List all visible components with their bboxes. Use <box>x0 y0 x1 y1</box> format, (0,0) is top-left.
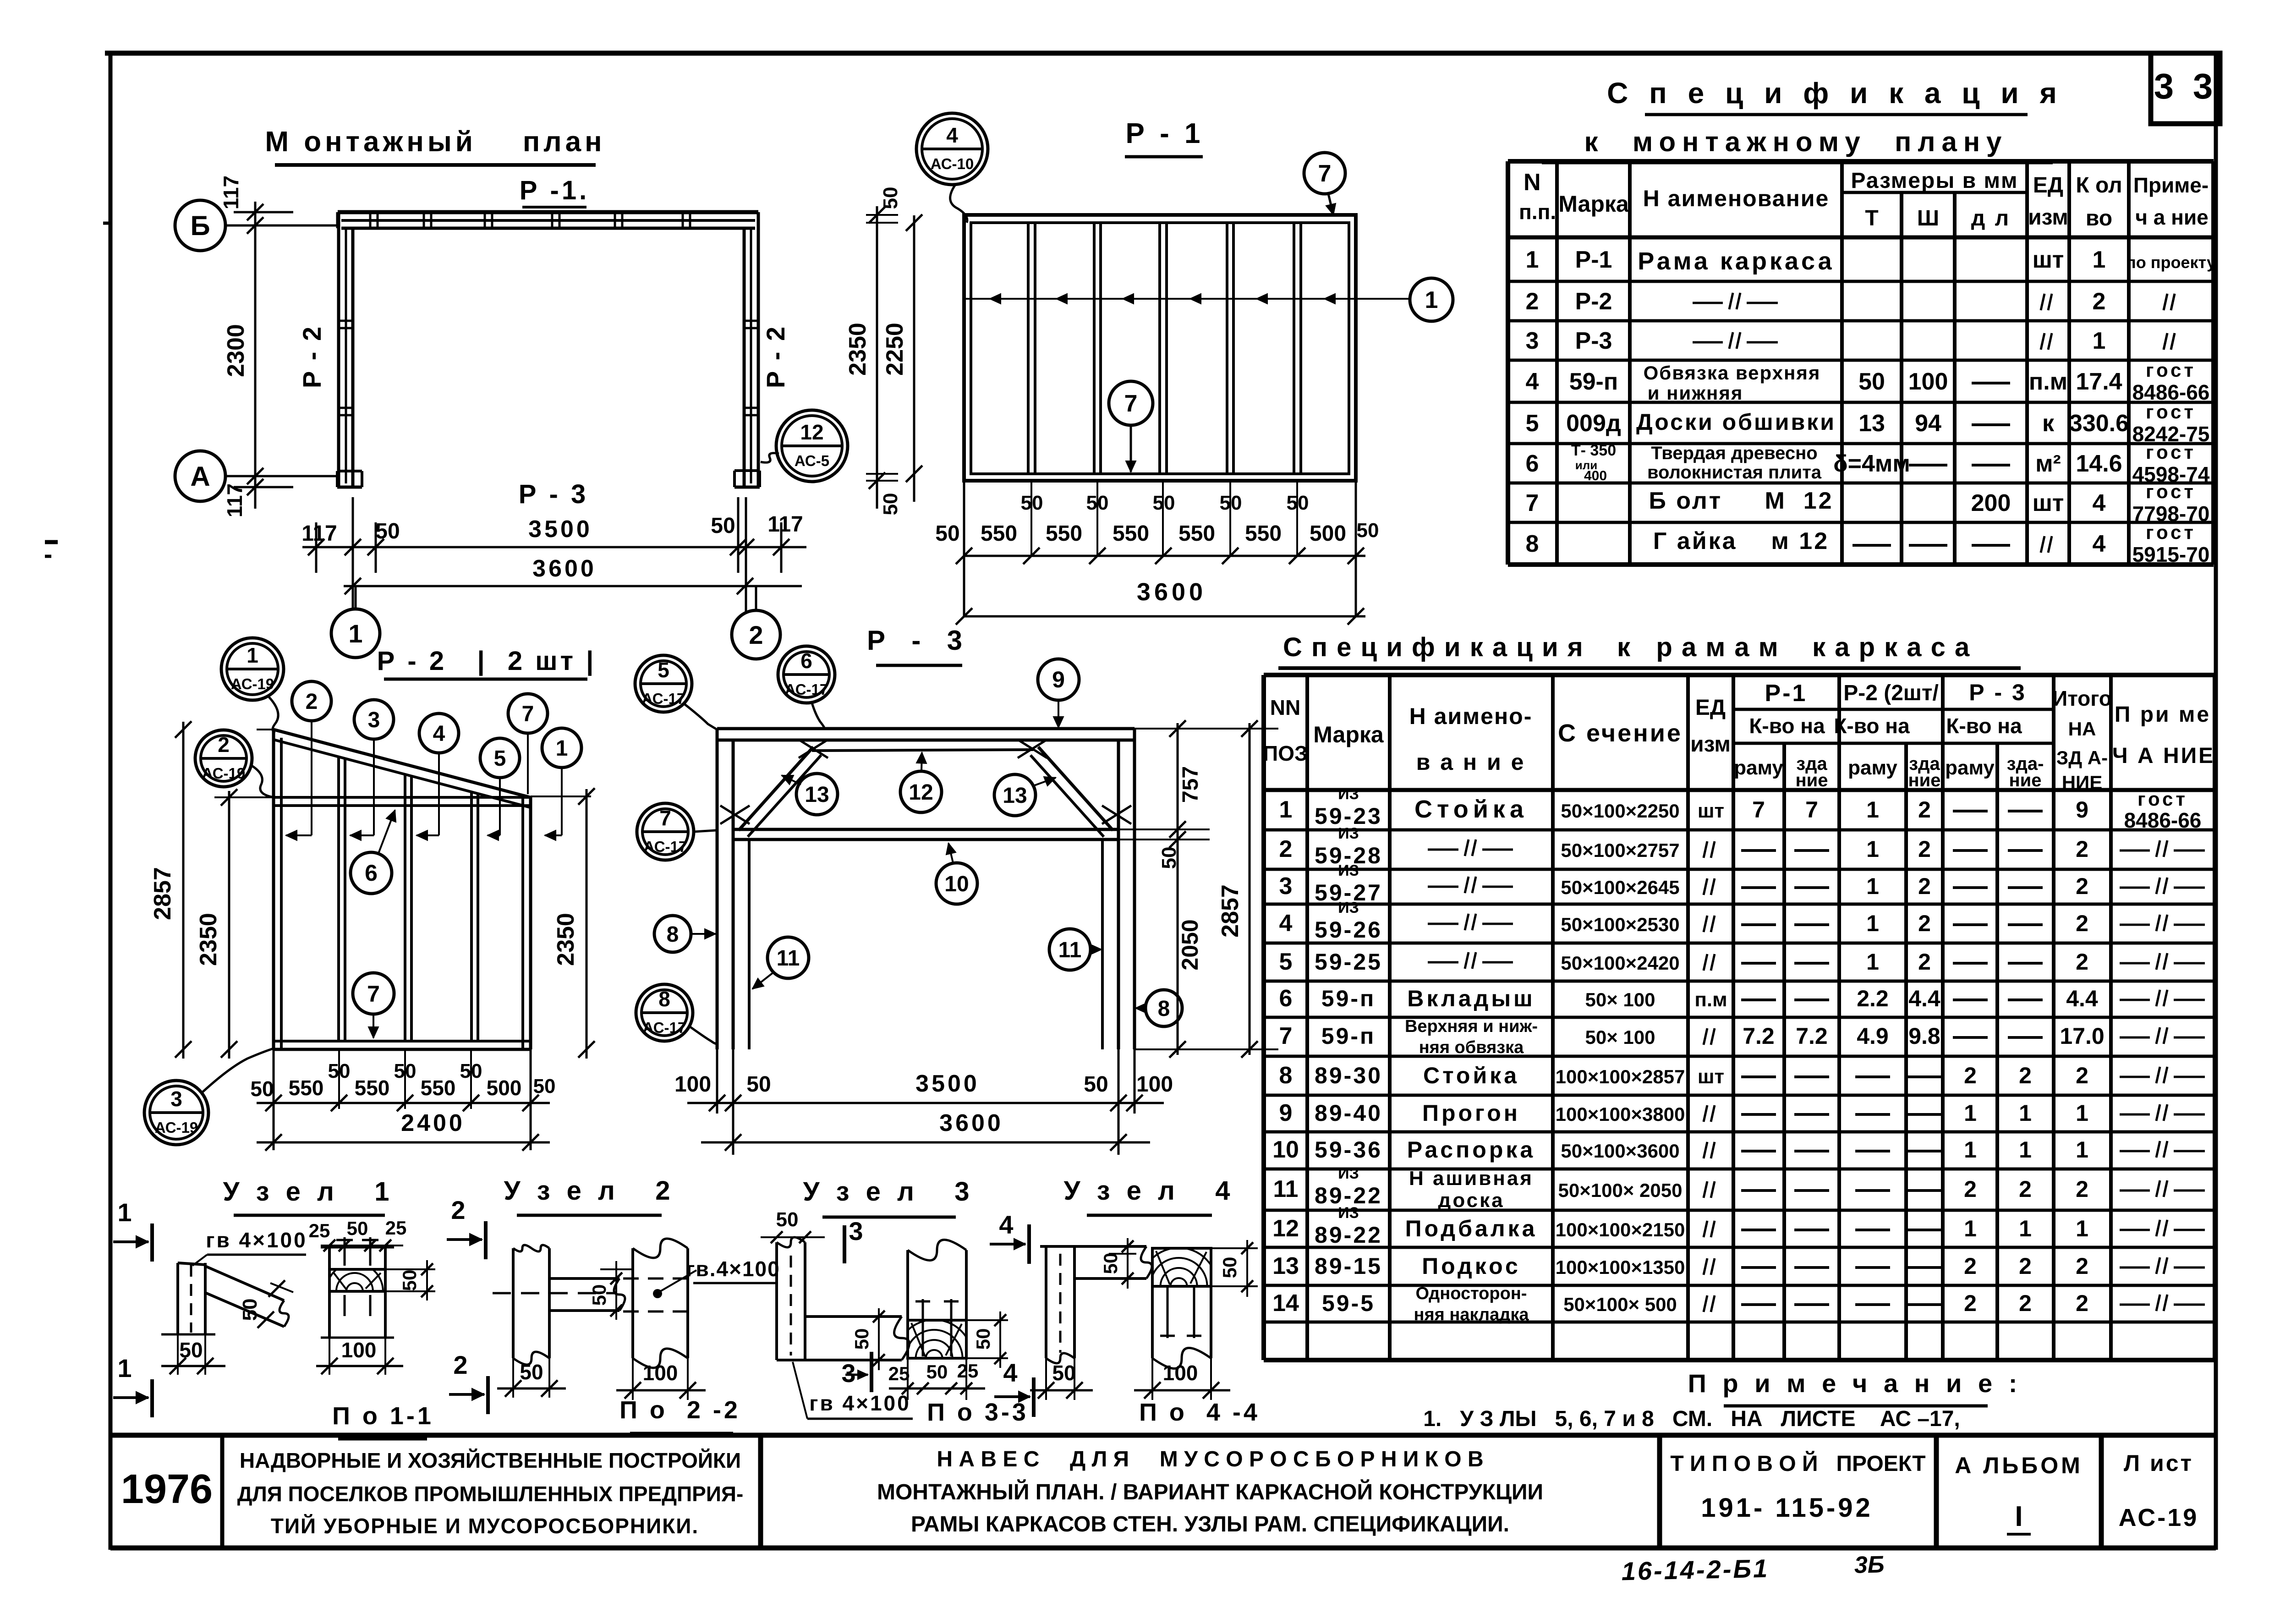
svg-text:100: 100 <box>1163 1361 1198 1385</box>
svg-text:3: 3 <box>1526 328 1539 354</box>
svg-text:Приме-: Приме- <box>2133 173 2209 197</box>
svg-text:14: 14 <box>1272 1290 1299 1317</box>
svg-text:ИЗ: ИЗ <box>1338 785 1359 803</box>
svg-text:I: I <box>2015 1501 2022 1532</box>
svg-text:50: 50 <box>399 1270 420 1291</box>
svg-text:1: 1 <box>1866 797 1879 823</box>
svg-text:50: 50 <box>935 521 959 546</box>
svg-text:25: 25 <box>385 1217 407 1239</box>
svg-text:50: 50 <box>711 514 735 538</box>
svg-text:50: 50 <box>533 1075 556 1097</box>
svg-text:2350: 2350 <box>195 913 222 966</box>
svg-text:АС-5: АС-5 <box>795 452 829 469</box>
svg-text:2: 2 <box>1918 836 1931 862</box>
svg-text:550: 550 <box>289 1076 324 1100</box>
svg-text:3600: 3600 <box>532 555 597 582</box>
svg-text:няя обвязка: няя обвязка <box>1419 1038 1524 1057</box>
svg-text:4: 4 <box>1526 368 1539 395</box>
svg-text:гост: гост <box>2146 401 2196 422</box>
svg-text:1: 1 <box>2093 247 2106 273</box>
svg-text:100: 100 <box>643 1361 678 1385</box>
svg-text:50: 50 <box>1086 492 1109 514</box>
svg-text:Прогон: Прогон <box>1422 1100 1520 1126</box>
svg-text:п.м: п.м <box>2029 368 2067 395</box>
svg-text:Р - 3: Р - 3 <box>867 625 966 656</box>
svg-text:3: 3 <box>368 708 380 732</box>
svg-text:59-25: 59-25 <box>1315 949 1382 975</box>
svg-text:50: 50 <box>250 1077 274 1101</box>
svg-text:АС-17: АС-17 <box>644 838 687 855</box>
svg-text:по проекту: по проекту <box>2126 253 2216 272</box>
svg-text:К-во на: К-во на <box>1749 714 1825 738</box>
svg-text:АС-19: АС-19 <box>2119 1504 2199 1531</box>
svg-text:изм: изм <box>1690 732 1731 757</box>
svg-text:50: 50 <box>1021 492 1043 514</box>
svg-text:7: 7 <box>1805 797 1818 823</box>
svg-text:3: 3 <box>170 1087 182 1111</box>
svg-text:100×100×1350: 100×100×1350 <box>1556 1256 1685 1278</box>
svg-text:50×100× 500: 50×100× 500 <box>1563 1294 1677 1315</box>
svg-text:1: 1 <box>1964 1137 1977 1163</box>
svg-text:100×100×2857: 100×100×2857 <box>1556 1066 1685 1087</box>
svg-text:14.6: 14.6 <box>2076 450 2122 477</box>
svg-text:50: 50 <box>1858 368 1885 395</box>
svg-text:3 3: 3 3 <box>2154 66 2217 106</box>
svg-text:1: 1 <box>2076 1100 2088 1126</box>
svg-text:400: 400 <box>1584 468 1607 483</box>
svg-text:П о 1-1: П о 1-1 <box>332 1402 434 1430</box>
svg-text:11: 11 <box>1058 938 1082 962</box>
svg-text:М онтажный план: М онтажный план <box>265 126 605 158</box>
svg-text:50× 100: 50× 100 <box>1585 989 1655 1010</box>
svg-text:89-30: 89-30 <box>1315 1063 1382 1088</box>
svg-text:4: 4 <box>2093 531 2106 557</box>
svg-text:17.4: 17.4 <box>2076 368 2122 395</box>
svg-text:12: 12 <box>1272 1215 1299 1242</box>
svg-text:ЗД А-: ЗД А- <box>2056 747 2108 768</box>
svg-text:Ш: Ш <box>1917 206 1939 230</box>
svg-text:П ри ме: П ри ме <box>2115 702 2211 727</box>
svg-text:8: 8 <box>1526 531 1539 557</box>
svg-text:Т: Т <box>1865 206 1878 230</box>
svg-text:4: 4 <box>2093 490 2106 516</box>
svg-text:13: 13 <box>1003 784 1027 808</box>
svg-text:2: 2 <box>1526 288 1539 315</box>
svg-text:2: 2 <box>2076 1290 2088 1316</box>
svg-text:100×100×2150: 100×100×2150 <box>1556 1219 1685 1240</box>
svg-text:7: 7 <box>1124 390 1138 417</box>
svg-text:К-во на: К-во на <box>1834 714 1910 738</box>
svg-text:ИЗ: ИЗ <box>1338 899 1359 916</box>
svg-text:Ч А НИЕ: Ч А НИЕ <box>2112 744 2215 768</box>
svg-text:гв.4×100: гв.4×100 <box>686 1257 780 1281</box>
svg-text:1: 1 <box>117 1198 132 1227</box>
svg-text:50: 50 <box>375 519 400 543</box>
svg-text:2: 2 <box>453 1350 467 1379</box>
svg-text:ИЗ: ИЗ <box>1338 862 1359 879</box>
svg-text:2400: 2400 <box>401 1110 465 1136</box>
svg-text:1: 1 <box>348 619 362 648</box>
svg-text:50: 50 <box>1084 1072 1108 1097</box>
svg-text:У з е л 3: У з е л 3 <box>803 1177 974 1207</box>
svg-text:2: 2 <box>218 733 230 757</box>
svg-text:Р - 2: Р - 2 <box>761 325 790 388</box>
svg-text:50×100× 2050: 50×100× 2050 <box>1558 1180 1683 1201</box>
svg-text:Т- 350: Т- 350 <box>1571 442 1616 459</box>
svg-text:191- 115-92: 191- 115-92 <box>1701 1493 1873 1523</box>
svg-text:550: 550 <box>981 521 1017 546</box>
svg-text:Марка: Марка <box>1313 722 1384 747</box>
svg-text:2: 2 <box>1964 1253 1977 1279</box>
svg-text:3: 3 <box>849 1217 863 1245</box>
svg-text:Рама каркаса: Рама каркаса <box>1638 247 1834 275</box>
svg-text:ЕД: ЕД <box>2033 173 2063 198</box>
svg-text:2857: 2857 <box>149 867 176 920</box>
svg-text:Н аименование: Н аименование <box>1643 186 1830 211</box>
svg-text:6: 6 <box>800 649 812 673</box>
svg-text:2: 2 <box>2019 1176 2032 1202</box>
svg-text:16-14-2-Б1: 16-14-2-Б1 <box>1621 1554 1770 1586</box>
svg-text:59-36: 59-36 <box>1315 1137 1382 1163</box>
svg-text:Р-1: Р-1 <box>1575 247 1612 273</box>
svg-text:50: 50 <box>972 1328 994 1350</box>
svg-text:ч а ние: ч а ние <box>2135 205 2209 229</box>
svg-text:2: 2 <box>2019 1063 2032 1088</box>
svg-text:13: 13 <box>805 783 829 807</box>
svg-text:2: 2 <box>451 1196 465 1224</box>
svg-text:2: 2 <box>1918 873 1931 899</box>
svg-text:П о 3-3: П о 3-3 <box>927 1399 1029 1426</box>
svg-text:50: 50 <box>394 1060 417 1082</box>
svg-text:в а н и е: в а н и е <box>1416 749 1526 775</box>
svg-text:НАДВОРНЫЕ И ХОЗЯЙСТВЕННЫЕ ПОСТ: НАДВОРНЫЕ И ХОЗЯЙСТВЕННЫЕ ПОСТРОЙКИ <box>240 1448 741 1472</box>
svg-text:4.9: 4.9 <box>1857 1023 1889 1049</box>
svg-text:50: 50 <box>239 1299 261 1321</box>
svg-text:ТИЙ УБОРНЫЕ И МУСОРОСБОРНИКИ.: ТИЙ УБОРНЫЕ И МУСОРОСБОРНИКИ. <box>271 1514 699 1538</box>
svg-text:Подкос: Подкос <box>1422 1253 1521 1279</box>
svg-text:500: 500 <box>487 1076 522 1100</box>
svg-text:2: 2 <box>1279 836 1293 862</box>
svg-text:Р - 2: Р - 2 <box>297 325 326 388</box>
svg-text:во: во <box>2086 206 2112 230</box>
svg-text:1: 1 <box>1866 911 1879 936</box>
svg-text:11: 11 <box>777 946 800 971</box>
svg-text:С ечение: С ечение <box>1558 719 1683 747</box>
svg-text:2: 2 <box>749 620 763 649</box>
svg-text:550: 550 <box>1245 521 1282 546</box>
svg-text:АС-10: АС-10 <box>931 155 974 172</box>
svg-text:10: 10 <box>1272 1136 1299 1163</box>
svg-text:50: 50 <box>179 1338 203 1362</box>
svg-text:5915-70: 5915-70 <box>2132 543 2210 566</box>
svg-text:5: 5 <box>1526 410 1539 437</box>
svg-text:50: 50 <box>1220 492 1242 514</box>
svg-text:гв 4×100: гв 4×100 <box>206 1228 307 1252</box>
svg-text:Р - 3: Р - 3 <box>1969 680 2027 705</box>
svg-text:НИЕ: НИЕ <box>2062 772 2103 793</box>
svg-text:гост: гост <box>2146 521 2196 543</box>
svg-text:NN: NN <box>1270 696 1300 719</box>
svg-text:2300: 2300 <box>223 324 249 377</box>
svg-text:8486-66: 8486-66 <box>2124 808 2202 832</box>
svg-text:12: 12 <box>909 780 933 805</box>
svg-text:1. У З ЛЫ 5, 6, 7 и 8 СМ: 1. У З ЛЫ 5, 6, 7 и 8 СМ. НА ЛИСТЕ АС –1… <box>1423 1407 1960 1431</box>
svg-text:7: 7 <box>1318 160 1332 187</box>
svg-text:50: 50 <box>1100 1253 1121 1274</box>
svg-text:7: 7 <box>522 702 534 726</box>
svg-text:няя накладка: няя накладка <box>1414 1305 1529 1324</box>
svg-text:5: 5 <box>658 658 669 682</box>
svg-text:2: 2 <box>2019 1253 2032 1279</box>
svg-text:АС-19: АС-19 <box>155 1119 198 1136</box>
svg-text:2: 2 <box>1918 911 1931 936</box>
svg-text:У з е л 4: У з е л 4 <box>1064 1176 1235 1206</box>
svg-text:7: 7 <box>367 981 380 1007</box>
svg-text:1: 1 <box>2076 1137 2088 1163</box>
svg-text:А: А <box>190 461 210 492</box>
svg-text:3Б: 3Б <box>1854 1551 1885 1578</box>
svg-text:АС-17: АС-17 <box>785 681 828 698</box>
svg-text:1: 1 <box>1279 796 1293 823</box>
svg-text:50: 50 <box>879 187 902 209</box>
svg-text:1: 1 <box>1866 836 1879 862</box>
svg-text:89-22: 89-22 <box>1315 1222 1382 1248</box>
svg-text:7.2: 7.2 <box>1796 1023 1828 1049</box>
svg-text:2: 2 <box>2019 1290 2032 1316</box>
svg-text:К-во на: К-во на <box>1946 714 2022 738</box>
svg-text:4: 4 <box>1279 910 1293 937</box>
svg-text:50: 50 <box>746 1072 771 1097</box>
svg-text:5: 5 <box>494 746 506 771</box>
svg-text:3500: 3500 <box>915 1070 980 1097</box>
svg-text:59-п: 59-п <box>1321 1023 1376 1049</box>
svg-text:500: 500 <box>1310 521 1346 546</box>
svg-text:12: 12 <box>800 420 823 444</box>
svg-text:5: 5 <box>1279 949 1293 975</box>
svg-text:117: 117 <box>767 512 803 537</box>
svg-text:δ=4мм: δ=4мм <box>1833 450 1910 477</box>
svg-text:2350: 2350 <box>844 323 871 376</box>
svg-text:Итого: Итого <box>2052 686 2112 710</box>
svg-text:раму: раму <box>1945 757 1995 779</box>
svg-text:Б олт М 12: Б олт М 12 <box>1649 488 1833 514</box>
svg-text:АС-17: АС-17 <box>643 1019 686 1036</box>
svg-text:N: N <box>1524 169 1541 196</box>
svg-text:Доски обшивки: Доски обшивки <box>1636 409 1836 435</box>
svg-text:13: 13 <box>1272 1253 1299 1279</box>
svg-text:50×100×2757: 50×100×2757 <box>1561 839 1679 861</box>
svg-text:100: 100 <box>1908 368 1948 395</box>
svg-text:шт: шт <box>1698 1065 1724 1088</box>
svg-text:2857: 2857 <box>1217 884 1244 938</box>
svg-text:П о 2 -2: П о 2 -2 <box>619 1396 740 1424</box>
svg-text:4.4: 4.4 <box>2066 986 2098 1011</box>
svg-text:Твердая древесно: Твердая древесно <box>1651 443 1817 463</box>
svg-text:Л ист: Л ист <box>2124 1450 2193 1476</box>
svg-text:м²: м² <box>2035 450 2061 477</box>
svg-text:шт: шт <box>2033 247 2064 273</box>
svg-text:50: 50 <box>460 1060 482 1082</box>
svg-text:гост: гост <box>2146 481 2196 502</box>
svg-text:ИЗ: ИЗ <box>1338 825 1359 842</box>
svg-text:АС-17: АС-17 <box>642 690 685 707</box>
svg-text:2: 2 <box>2076 1063 2088 1088</box>
svg-text:Р -1.: Р -1. <box>520 176 590 205</box>
svg-text:ние: ние <box>1908 770 1941 790</box>
svg-text:Н аимено-: Н аимено- <box>1409 703 1533 729</box>
svg-text:гост: гост <box>2138 788 2188 810</box>
svg-text:д л: д л <box>1971 206 2011 230</box>
svg-text:Распорка: Распорка <box>1407 1137 1535 1163</box>
svg-text:ЕД: ЕД <box>1695 696 1726 720</box>
svg-text:59-п: 59-п <box>1569 368 1618 395</box>
svg-text:РАМЫ КАРКАСОВ СТЕН. УЗЛЫ РАМ.: РАМЫ КАРКАСОВ СТЕН. УЗЛЫ РАМ. СПЕЦИФИКАЦ… <box>911 1512 1509 1536</box>
svg-text:2: 2 <box>1964 1290 1977 1316</box>
svg-text:Р-3: Р-3 <box>1575 328 1612 354</box>
svg-text:6: 6 <box>1526 450 1539 477</box>
svg-text:50: 50 <box>328 1060 351 1082</box>
svg-text:7: 7 <box>659 806 671 830</box>
svg-text:8: 8 <box>1279 1062 1293 1089</box>
svg-text:2: 2 <box>2093 288 2106 315</box>
svg-text:Н ашивная: Н ашивная <box>1409 1167 1534 1190</box>
svg-text:50×100×2645: 50×100×2645 <box>1561 877 1679 898</box>
svg-text:4: 4 <box>433 722 445 746</box>
svg-text:59-п: 59-п <box>1321 986 1376 1011</box>
svg-text:8: 8 <box>667 922 679 947</box>
svg-text:50×100×2420: 50×100×2420 <box>1561 952 1679 974</box>
svg-text:550: 550 <box>355 1076 390 1100</box>
svg-text:100: 100 <box>1136 1072 1173 1097</box>
svg-text:50: 50 <box>347 1218 368 1239</box>
svg-text:Р-2: Р-2 <box>1575 288 1612 315</box>
svg-text:550: 550 <box>421 1076 456 1100</box>
svg-text:50: 50 <box>1287 492 1309 514</box>
svg-text:Р-1: Р-1 <box>1765 680 1808 707</box>
svg-text:гост: гост <box>2146 441 2196 463</box>
svg-text:100: 100 <box>341 1338 377 1362</box>
svg-text:4: 4 <box>999 1210 1013 1239</box>
svg-text:раму: раму <box>1734 757 1783 779</box>
svg-text:1: 1 <box>1526 247 1539 273</box>
svg-text:У з е л 1: У з е л 1 <box>223 1177 394 1207</box>
svg-text:7.2: 7.2 <box>1743 1023 1775 1049</box>
svg-text:А ЛЬБОМ: А ЛЬБОМ <box>1955 1453 2083 1478</box>
svg-text:200: 200 <box>1971 490 2011 516</box>
svg-text:2: 2 <box>2076 1176 2088 1202</box>
svg-text:3: 3 <box>1279 873 1293 900</box>
svg-text:1: 1 <box>1964 1216 1977 1241</box>
svg-text:4: 4 <box>946 123 958 147</box>
svg-text:ИЗ: ИЗ <box>1338 1204 1359 1222</box>
svg-text:П о 4 -4: П о 4 -4 <box>1139 1399 1260 1426</box>
svg-text:ние: ние <box>1796 770 1828 790</box>
svg-text:8: 8 <box>1158 997 1170 1021</box>
svg-text:Г айка м 12: Г айка м 12 <box>1653 528 1829 554</box>
svg-text:Р - 1: Р - 1 <box>1126 118 1204 149</box>
svg-text:117: 117 <box>219 176 243 209</box>
svg-text:7: 7 <box>1279 1023 1293 1049</box>
svg-text:7: 7 <box>1526 490 1539 516</box>
svg-text:50: 50 <box>926 1361 948 1383</box>
svg-text:50: 50 <box>879 493 902 516</box>
svg-text:13: 13 <box>1858 410 1885 437</box>
svg-text:к: к <box>2042 410 2055 437</box>
svg-text:Марка: Марка <box>1558 191 1629 217</box>
svg-text:117: 117 <box>223 483 247 517</box>
svg-text:и нижняя: и нижняя <box>1648 382 1743 404</box>
svg-text:17.0: 17.0 <box>2060 1023 2104 1049</box>
svg-text:9: 9 <box>1052 667 1065 692</box>
svg-text:89-15: 89-15 <box>1315 1253 1382 1279</box>
svg-text:Односторон-: Односторон- <box>1416 1284 1527 1303</box>
svg-text:50× 100: 50× 100 <box>1585 1026 1655 1048</box>
svg-text:К ол: К ол <box>2076 173 2122 198</box>
svg-text:1: 1 <box>556 736 568 761</box>
svg-text:ДЛЯ ПОСЕЛКОВ ПРОМЫШЛЕННЫХ ПРЕД: ДЛЯ ПОСЕЛКОВ ПРОМЫШЛЕННЫХ ПРЕДПРИЯ- <box>237 1482 744 1506</box>
svg-text:2: 2 <box>2076 949 2088 975</box>
svg-text:волокнистая плита: волокнистая плита <box>1647 462 1822 483</box>
svg-text:П р и м е ч а н и е :: П р и м е ч а н и е : <box>1688 1369 2022 1398</box>
svg-text:100×100×3800: 100×100×3800 <box>1556 1103 1685 1125</box>
svg-text:550: 550 <box>1046 521 1082 546</box>
svg-text:50: 50 <box>588 1284 610 1306</box>
svg-text:94: 94 <box>1915 410 1941 437</box>
svg-text:Стойка: Стойка <box>1423 1063 1519 1088</box>
svg-text:доска: доска <box>1438 1189 1504 1212</box>
svg-text:шт: шт <box>2033 490 2064 516</box>
svg-text:2: 2 <box>2076 836 2088 862</box>
svg-text:Р - 3: Р - 3 <box>519 479 589 509</box>
svg-text:50: 50 <box>1153 492 1175 514</box>
svg-text:50: 50 <box>1158 847 1180 869</box>
svg-text:2.2: 2.2 <box>1857 986 1889 1011</box>
svg-text:3600: 3600 <box>1137 578 1206 606</box>
svg-text:9: 9 <box>2076 797 2088 823</box>
svg-text:У з е л 2: У з е л 2 <box>504 1176 675 1206</box>
svg-text:Стойка: Стойка <box>1414 796 1528 823</box>
svg-text:1: 1 <box>247 643 258 667</box>
svg-text:Размеры в мм: Размеры в мм <box>1851 169 2018 193</box>
svg-text:10: 10 <box>944 872 969 896</box>
svg-text:2350: 2350 <box>553 913 579 966</box>
svg-text:раму: раму <box>1848 757 1897 779</box>
svg-text:Вкладыш: Вкладыш <box>1407 986 1535 1011</box>
svg-text:п.п.: п.п. <box>1519 200 1556 224</box>
svg-text:50: 50 <box>1219 1257 1240 1278</box>
svg-text:89-40: 89-40 <box>1315 1100 1382 1126</box>
svg-text:МОНТАЖНЫЙ ПЛАН. / ВАРИАНТ КАРК: МОНТАЖНЫЙ ПЛАН. / ВАРИАНТ КАРКАСНОЙ КОНС… <box>877 1479 1543 1504</box>
svg-text:50: 50 <box>1052 1361 1075 1385</box>
svg-text:1: 1 <box>117 1354 132 1383</box>
svg-text:1: 1 <box>2076 1216 2088 1241</box>
svg-text:АС-19: АС-19 <box>231 675 274 692</box>
svg-text:4.4: 4.4 <box>1908 986 1940 1011</box>
svg-text:757: 757 <box>1178 766 1203 803</box>
svg-text:ние: ние <box>2009 770 2042 790</box>
svg-text:п.м: п.м <box>1694 988 1727 1011</box>
svg-text:6: 6 <box>365 860 378 886</box>
svg-text:С п е ц и ф и к а ц и я: С п е ц и ф и к а ц и я <box>1607 77 2063 110</box>
svg-text:50: 50 <box>1357 519 1379 542</box>
svg-text:Н А В Е С Д Л Я М У С: Н А В Е С Д Л Я М У С О Р О С Б О Р Н И … <box>937 1447 1483 1471</box>
svg-text:НА: НА <box>2068 718 2096 740</box>
svg-text:50×100×3600: 50×100×3600 <box>1561 1140 1679 1162</box>
svg-text:1: 1 <box>1425 287 1438 313</box>
svg-text:шт: шт <box>1698 800 1724 822</box>
svg-text:1: 1 <box>2019 1137 2032 1163</box>
svg-text:1: 1 <box>2093 328 2106 354</box>
